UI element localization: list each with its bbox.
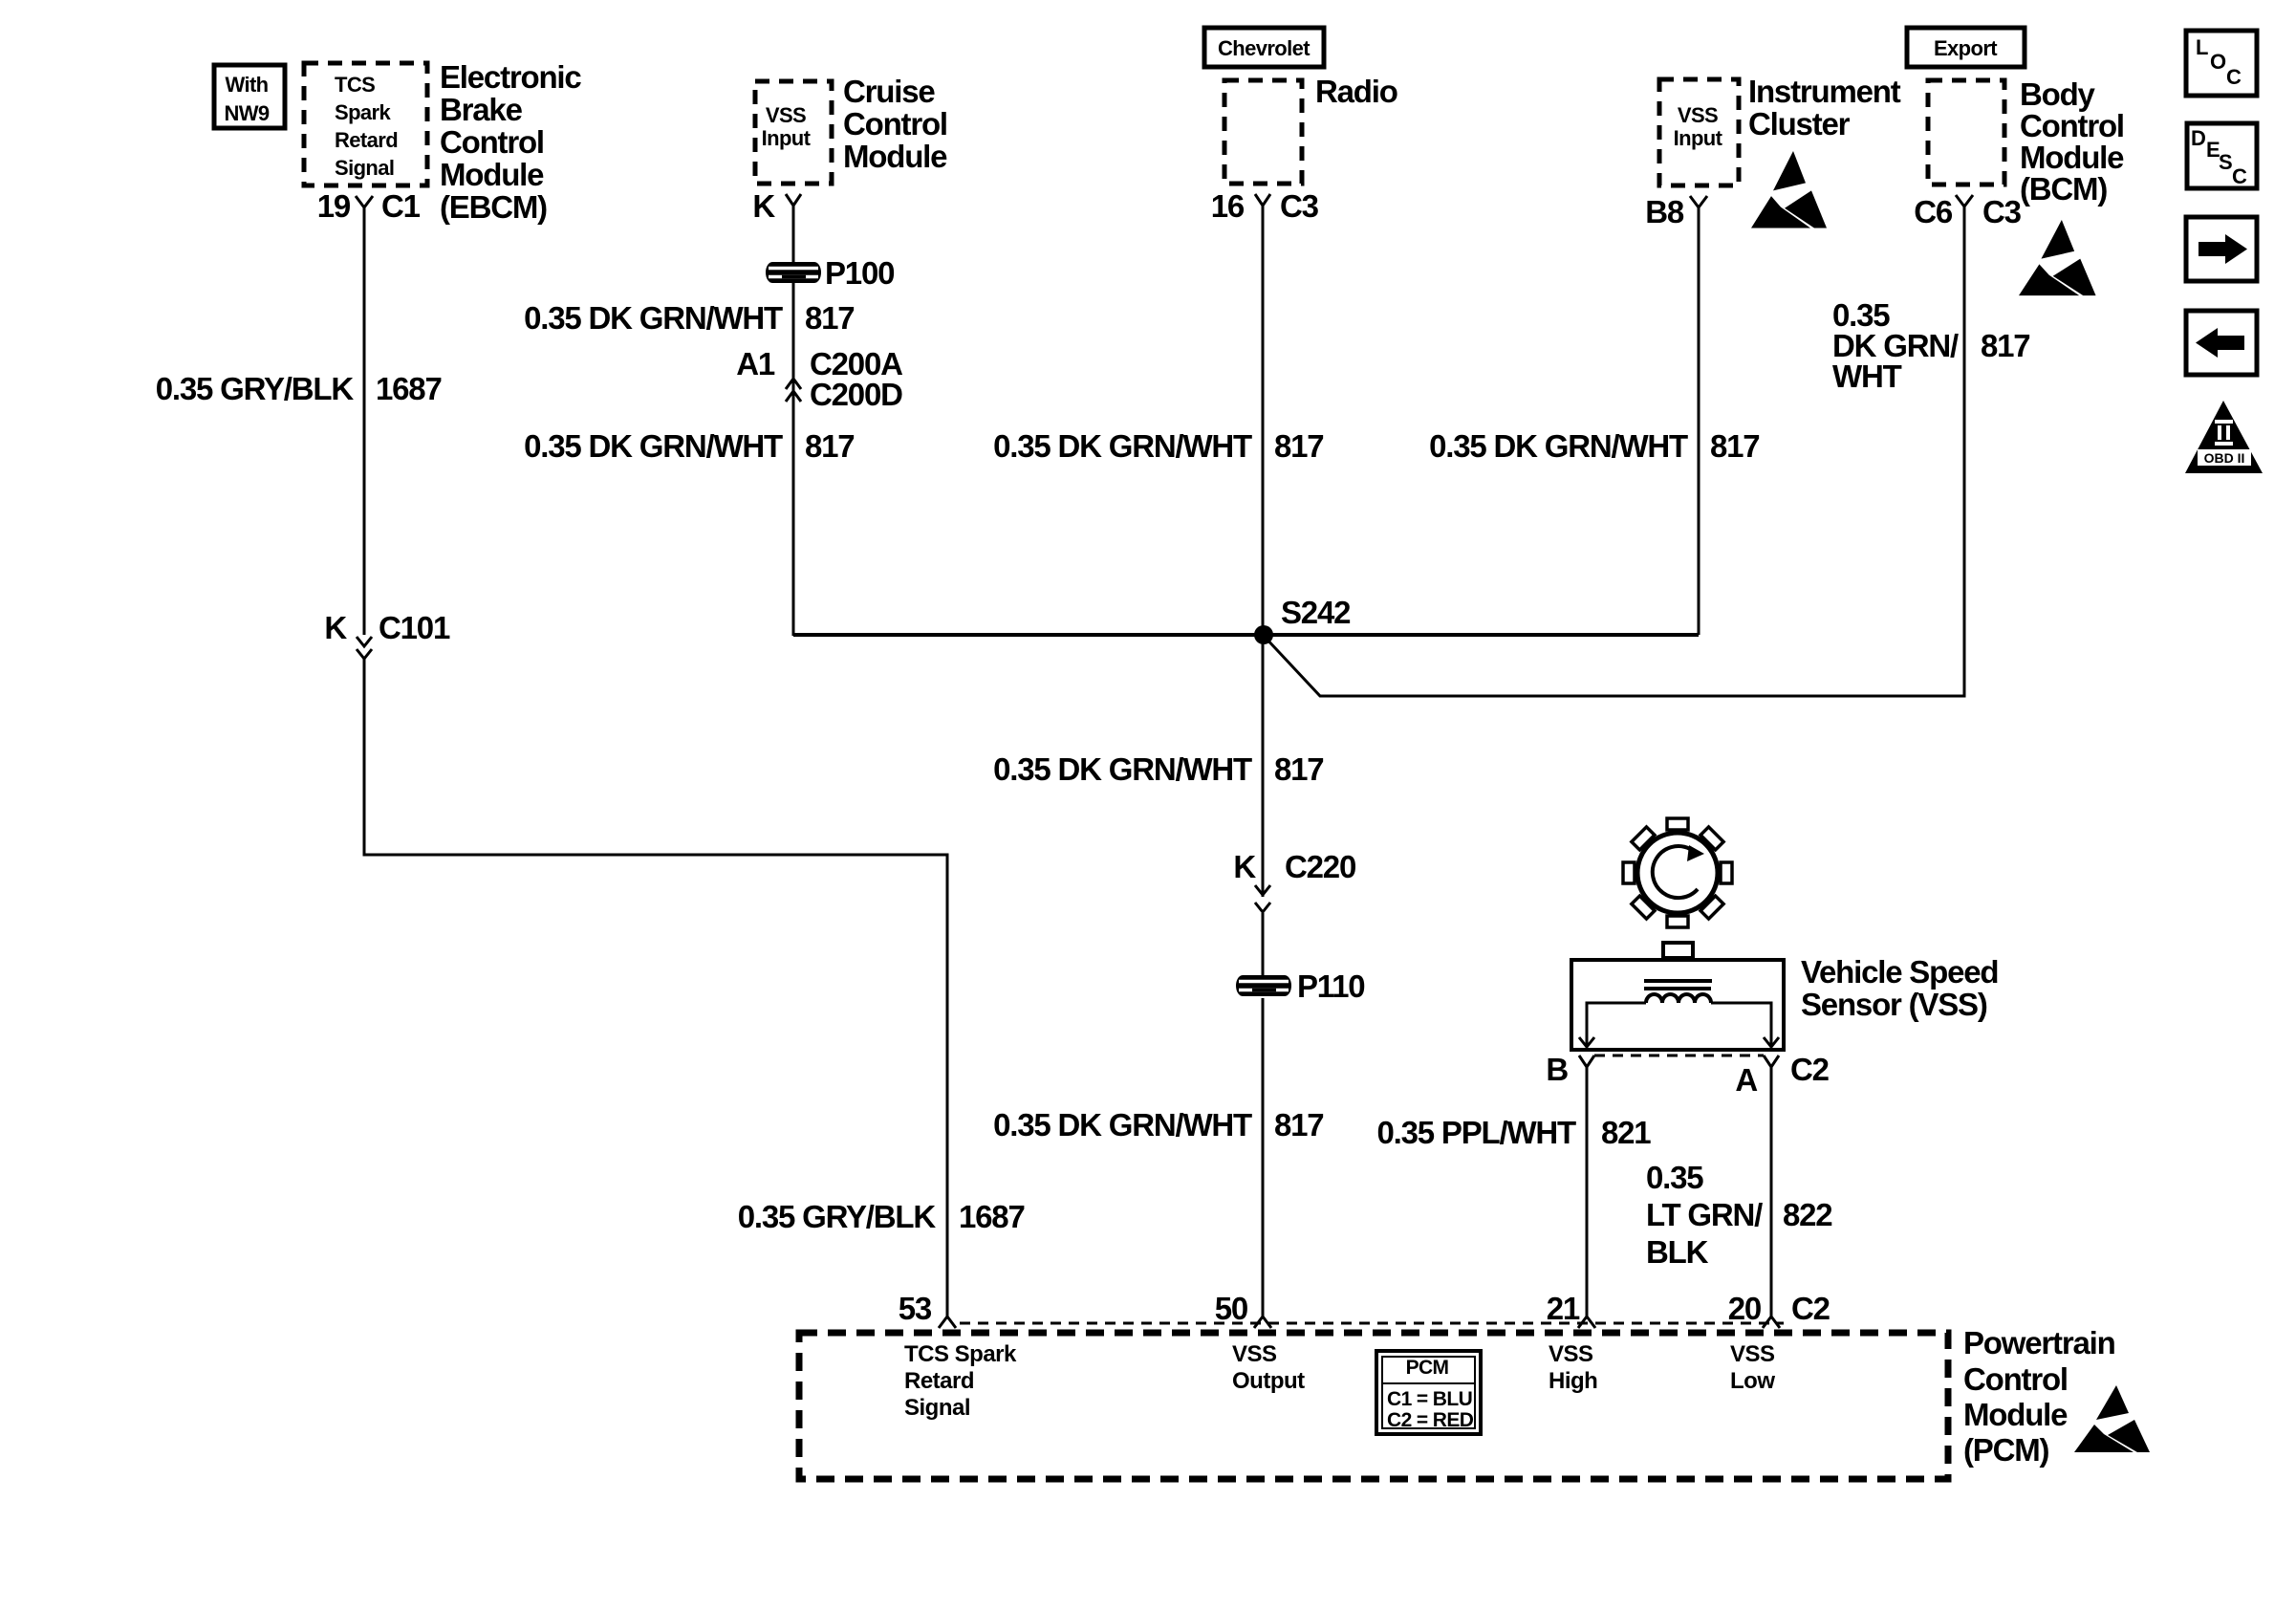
sidebar icon DESC (2187, 123, 2257, 188)
svg-text:Low: Low (1730, 1368, 1775, 1394)
svg-text:0.35 PPL/WHT: 0.35 PPL/WHT (1377, 1115, 1577, 1150)
svg-text:Control: Control (843, 106, 947, 141)
connector C220 pass-through on radio wire (1233, 849, 1355, 912)
svg-text:Instrument: Instrument (1748, 74, 1901, 109)
PCM pin function label VSS Output (1232, 1341, 1305, 1394)
PCM pin function label VSS Low (1730, 1341, 1775, 1394)
svg-text:821: 821 (1601, 1115, 1651, 1150)
label Vehicle Speed Sensor (VSS) (1801, 954, 1998, 1022)
svg-text:Retard: Retard (335, 128, 398, 152)
svg-text:Control: Control (1963, 1361, 2068, 1397)
pin 21 of PCM (1547, 1291, 1595, 1328)
svg-text:C3: C3 (1280, 188, 1319, 224)
svg-text:0.35 DK GRN/WHT: 0.35 DK GRN/WHT (993, 1107, 1252, 1142)
wire 817 DK GRN/WHT from cruise K down to S242 line (792, 206, 795, 636)
pin B8 of instrument cluster (1645, 194, 1707, 229)
sidebar icon left arrow (2186, 311, 2257, 375)
sidebar icon LOC (2186, 31, 2257, 96)
svg-text:Brake: Brake (440, 92, 523, 127)
svg-text:817: 817 (1981, 328, 2029, 363)
module EBCM dashed box (TCS Spark Retard Signal) (304, 63, 427, 185)
svg-text:Spark: Spark (335, 100, 392, 124)
svg-text:Module: Module (843, 139, 947, 174)
svg-text:TCS: TCS (335, 73, 375, 97)
wire label 0.35 DK GRN/WHT 817 (instrument) (1429, 428, 1759, 464)
svg-text:A: A (1735, 1062, 1757, 1098)
svg-text:PCM: PCM (1406, 1357, 1449, 1379)
svg-text:BLK: BLK (1646, 1234, 1709, 1270)
svg-text:Radio: Radio (1315, 74, 1397, 109)
svg-text:C: C (2232, 164, 2247, 188)
module PCM dashed box (799, 1333, 1948, 1479)
PCM connector legend box (1376, 1351, 1481, 1434)
svg-text:B: B (1546, 1052, 1568, 1087)
svg-text:19: 19 (317, 188, 351, 224)
label Powertrain Control Module (PCM) (1963, 1325, 2115, 1468)
connector C2 dashed pin line on PCM (960, 1322, 1784, 1325)
svg-text:TCS Spark: TCS Spark (904, 1341, 1017, 1367)
PCM pin function label TCS Spark Retard Signal (904, 1341, 1017, 1421)
svg-text:Module: Module (2020, 140, 2124, 175)
svg-text:Control: Control (440, 124, 544, 160)
svg-text:C6: C6 (1914, 194, 1953, 229)
VSS reluctor gear icon (1600, 795, 1754, 949)
connector C2 of VSS (pins B and A) (1546, 1052, 1829, 1098)
wire label 0.35 DK GRN/WHT 817 (radio below S242) (993, 751, 1323, 787)
svg-text:0.35 GRY/BLK: 0.35 GRY/BLK (156, 371, 355, 406)
wire label 0.35 DK GRN/WHT 817 (cruise lower) (524, 428, 854, 464)
svg-text:Input: Input (762, 126, 812, 150)
svg-text:817: 817 (805, 300, 854, 336)
svg-text:817: 817 (1710, 428, 1759, 464)
module Body Control Module dashed box (1928, 80, 2004, 185)
svg-text:0.35 DK GRN/WHT: 0.35 DK GRN/WHT (1429, 428, 1688, 464)
svg-text:With: With (225, 73, 268, 97)
wire 1687 GRY/BLK from EBCM pin 19 down (363, 207, 366, 635)
wire segment below C101 down and right to PCM pin 53 (364, 659, 947, 1316)
svg-text:50: 50 (1215, 1291, 1247, 1326)
svg-text:C1: C1 (381, 188, 421, 224)
pins C6 C3 of BCM (1914, 194, 2021, 229)
wire 821 PPL/WHT from VSS B to PCM pin 21 (1586, 1067, 1589, 1316)
pin 16 C3 of radio (1211, 188, 1319, 224)
svg-text:20: 20 (1728, 1291, 1761, 1326)
svg-text:LT GRN/: LT GRN/ (1646, 1197, 1763, 1232)
svg-text:Module: Module (1963, 1397, 2068, 1432)
pin 53 of PCM (899, 1291, 956, 1328)
svg-text:Signal: Signal (335, 156, 394, 180)
svg-text:Cruise: Cruise (843, 74, 935, 109)
svg-text:1687: 1687 (959, 1199, 1025, 1234)
label Instrument Cluster (1748, 74, 1901, 141)
svg-text:VSS: VSS (1549, 1341, 1593, 1367)
svg-text:S: S (2219, 150, 2232, 174)
wire 817 from instrument cluster B8 down to S242 line (1698, 207, 1700, 635)
main bus wire through S242 (793, 633, 1699, 637)
svg-text:0.35 DK GRN/WHT: 0.35 DK GRN/WHT (524, 428, 783, 464)
svg-text:WHT: WHT (1832, 359, 1902, 394)
pin 20 of PCM (1728, 1291, 1830, 1328)
svg-text:Chevrolet: Chevrolet (1218, 36, 1310, 60)
connector C101 pass-through on GRY/BLK wire (324, 610, 450, 659)
svg-text:K: K (324, 610, 347, 645)
svg-text:0.35 DK GRN/WHT: 0.35 DK GRN/WHT (993, 428, 1252, 464)
wire label 0.35 GRY/BLK 1687 (upper) (156, 371, 442, 406)
svg-text:Input: Input (1674, 126, 1723, 150)
svg-text:High: High (1549, 1368, 1597, 1394)
pin 50 of PCM (1215, 1291, 1271, 1328)
svg-text:O: O (2210, 50, 2226, 74)
svg-text:C: C (2226, 65, 2242, 89)
connector C200A / C200D pass-through (736, 346, 902, 412)
wire label 0.35 DK GRN/WHT 817 (BCM, three lines) (1832, 297, 2029, 394)
svg-text:(PCM): (PCM) (1963, 1432, 2049, 1468)
module Cruise Control Module dashed box (VSS Input) (755, 81, 832, 184)
ESD symbol (instrument cluster) (1751, 151, 1827, 228)
svg-text:Module: Module (440, 157, 544, 192)
sidebar icon right arrow (2186, 217, 2257, 281)
ESD symbol (PCM) (2074, 1385, 2150, 1452)
svg-text:53: 53 (899, 1291, 932, 1326)
svg-text:817: 817 (805, 428, 854, 464)
svg-text:VSS: VSS (766, 103, 806, 127)
wire 817 DK GRN/WHT from radio pin 16 down to PCM pin 50 (1262, 206, 1265, 1316)
svg-text:P110: P110 (1297, 968, 1364, 1004)
wire label 0.35 GRY/BLK 1687 (lower) (738, 1199, 1025, 1234)
svg-text:L: L (2196, 35, 2208, 59)
grommet P110 (1236, 968, 1364, 1004)
wire label 0.35 DK GRN/WHT 817 (radio lower) (993, 1107, 1323, 1142)
wire label 0.35 LT GRN/BLK 822 (three lines) (1646, 1160, 1832, 1270)
svg-text:1687: 1687 (376, 371, 442, 406)
svg-text:VSS: VSS (1678, 103, 1718, 127)
svg-text:C1 = BLU: C1 = BLU (1387, 1388, 1472, 1410)
option box With NW9 (214, 65, 285, 128)
svg-text:Signal: Signal (904, 1395, 970, 1421)
svg-text:Vehicle Speed: Vehicle Speed (1801, 954, 1998, 990)
module Instrument Cluster dashed box (VSS Input) (1659, 79, 1739, 185)
ESD symbol (BCM) (2019, 220, 2096, 295)
svg-text:0.35: 0.35 (1646, 1160, 1703, 1195)
svg-text:Powertrain: Powertrain (1963, 1325, 2115, 1360)
option box Export (1907, 28, 2025, 67)
pin 19 C1 of EBCM (317, 188, 421, 224)
svg-text:C2: C2 (1790, 1052, 1830, 1087)
label Body Control Module (BCM) (2020, 76, 2124, 207)
svg-text:C3: C3 (1982, 194, 2022, 229)
svg-text:(BCM): (BCM) (2020, 171, 2107, 207)
svg-text:817: 817 (1274, 1107, 1323, 1142)
svg-text:A1: A1 (736, 346, 775, 381)
svg-text:VSS: VSS (1730, 1341, 1775, 1367)
svg-text:0.35 GRY/BLK: 0.35 GRY/BLK (738, 1199, 937, 1234)
svg-text:E: E (2206, 138, 2220, 162)
svg-text:C2: C2 (1791, 1291, 1830, 1326)
svg-text:C200D: C200D (810, 377, 902, 412)
svg-text:21: 21 (1547, 1291, 1580, 1326)
svg-text:C220: C220 (1285, 849, 1355, 884)
svg-text:C2 = RED: C2 = RED (1387, 1409, 1474, 1431)
svg-text:817: 817 (1274, 751, 1323, 787)
PCM pin function label VSS High (1549, 1341, 1597, 1394)
svg-text:817: 817 (1274, 428, 1323, 464)
splice S242 junction dot (1254, 595, 1351, 644)
label Cruise Control Module (843, 74, 947, 174)
svg-text:K: K (752, 188, 775, 224)
grommet P100 (766, 255, 894, 291)
svg-text:Retard: Retard (904, 1368, 974, 1394)
svg-text:Sensor (VSS): Sensor (VSS) (1801, 987, 1987, 1022)
branch wire from S242 to BCM (1264, 207, 1964, 696)
svg-text:OBD II: OBD II (2204, 450, 2245, 466)
label Electronic Brake Control Module (EBCM) (440, 59, 581, 225)
svg-text:C101: C101 (379, 610, 450, 645)
svg-text:Output: Output (1232, 1368, 1305, 1394)
wire label 0.35 DK GRN/WHT 817 (cruise upper) (524, 300, 854, 336)
svg-text:Export: Export (1934, 36, 1998, 60)
svg-text:S242: S242 (1281, 595, 1351, 630)
module Radio dashed box (1224, 80, 1302, 184)
svg-text:Control: Control (2020, 108, 2124, 143)
Vehicle Speed Sensor body (1571, 943, 1784, 1050)
svg-text:VSS: VSS (1232, 1341, 1277, 1367)
svg-text:Electronic: Electronic (440, 59, 581, 95)
svg-text:B8: B8 (1645, 194, 1684, 229)
svg-text:(EBCM): (EBCM) (440, 189, 547, 225)
svg-text:Cluster: Cluster (1748, 106, 1851, 141)
svg-text:16: 16 (1211, 188, 1245, 224)
svg-text:Body: Body (2020, 76, 2096, 112)
pin K of cruise control module (752, 188, 801, 224)
wire label 0.35 DK GRN/WHT 817 (radio above S242) (993, 428, 1323, 464)
wire 822 LT GRN/BLK from VSS A to PCM pin 20 (1770, 1067, 1773, 1316)
sidebar icon OBD II triangle (2185, 401, 2263, 473)
svg-text:NW9: NW9 (224, 101, 269, 125)
wire label 0.35 PPL/WHT 821 (1377, 1115, 1652, 1150)
svg-text:K: K (1233, 849, 1256, 884)
svg-text:0.35 DK GRN/WHT: 0.35 DK GRN/WHT (993, 751, 1252, 787)
svg-text:0.35 DK GRN/WHT: 0.35 DK GRN/WHT (524, 300, 783, 336)
brand box Chevrolet (1204, 28, 1324, 67)
svg-text:D: D (2191, 126, 2205, 150)
svg-text:822: 822 (1783, 1197, 1832, 1232)
svg-text:P100: P100 (825, 255, 894, 291)
